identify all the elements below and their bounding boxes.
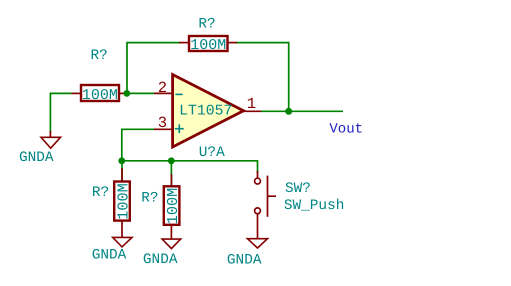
body	[114, 182, 130, 221]
svg-text:R?: R?	[141, 191, 158, 207]
node: input junction	[123, 90, 130, 97]
svg-text:3: 3	[158, 114, 167, 132]
op-amp U?A LT1057	[154, 75, 261, 162]
ground GNDA (under left vertical resistor)	[92, 237, 132, 263]
pin 1 stub	[72, 92, 82, 94]
pin 2 stub	[119, 92, 127, 94]
resistor R? (feedback, 100M)	[179, 16, 237, 54]
actuator bar	[267, 176, 269, 217]
body	[164, 186, 180, 225]
resistor R? (vertical left, 100M)	[92, 161, 132, 238]
svg-text:100M: 100M	[164, 188, 182, 224]
pin 2 stub	[257, 214, 259, 239]
svg-text:SW?: SW?	[285, 181, 311, 197]
switch SW? SW_Push	[255, 171, 345, 239]
pin 3 stub	[154, 128, 173, 130]
wire: feedback top-right (R? right pin right and down to output node)	[236, 43, 289, 112]
wire: junction to pin	[170, 161, 172, 187]
pin 2 stub	[121, 221, 123, 238]
svg-text:100M: 100M	[190, 37, 226, 54]
resistor R? (vertical right, 100M)	[141, 161, 182, 239]
non-inverting input plus sign	[175, 128, 184, 130]
pin 1 stub	[244, 110, 262, 112]
pin 2 stub	[154, 92, 173, 94]
node: bottom rail left junction	[118, 157, 125, 164]
svg-text:U?A: U?A	[199, 145, 225, 161]
wire: from input resistor left pin to GNDA drop	[50, 93, 71, 132]
contact circle bottom	[255, 208, 261, 214]
node: bottom rail middle junction	[168, 157, 175, 164]
node: output junction	[285, 108, 292, 115]
triangle body	[173, 75, 244, 148]
resistor R? (input, 100M)	[72, 48, 128, 104]
inverting input minus sign	[175, 93, 182, 95]
pin 1 stub	[257, 171, 259, 178]
svg-text:100M: 100M	[82, 87, 118, 104]
svg-text:R?: R?	[92, 185, 109, 201]
contact circle top	[255, 178, 261, 184]
svg-text:SW_Push: SW_Push	[284, 198, 344, 214]
ground GNDA (under right vertical resistor)	[143, 239, 181, 268]
wire: output	[261, 110, 343, 112]
svg-text:1: 1	[247, 95, 256, 113]
svg-text:GNDA: GNDA	[143, 252, 178, 268]
svg-text:GNDA: GNDA	[227, 253, 262, 269]
pin 1 stub	[170, 174, 172, 186]
actuator tick	[268, 195, 277, 197]
wire: junction to pin	[121, 161, 123, 182]
pin 2 stub	[170, 225, 172, 239]
body	[189, 36, 228, 51]
body	[81, 85, 119, 101]
svg-text:R?: R?	[91, 48, 108, 64]
svg-text:R?: R?	[198, 16, 215, 32]
pin 1 stub	[179, 42, 189, 44]
pin 2 stub	[228, 42, 238, 44]
wire: input node to op-amp inverting pin	[127, 92, 154, 94]
ground GNDA (under switch)	[227, 239, 268, 269]
wire: feedback top-left (junction up and right to R? left pin)	[127, 43, 180, 94]
svg-text:2: 2	[158, 79, 167, 97]
svg-text:GNDA: GNDA	[92, 248, 127, 264]
wire: op-amp pin 3 left then down to bottom rail	[122, 129, 154, 161]
svg-text:GNDA: GNDA	[19, 150, 54, 166]
svg-text:LT1057: LT1057	[179, 104, 232, 120]
pin 1 stub	[121, 168, 123, 182]
svg-text:Vout: Vout	[329, 121, 363, 137]
svg-text:100M: 100M	[114, 183, 132, 219]
ground GNDA (left)	[19, 131, 60, 166]
wire: bottom rail to switch drop	[122, 161, 258, 173]
